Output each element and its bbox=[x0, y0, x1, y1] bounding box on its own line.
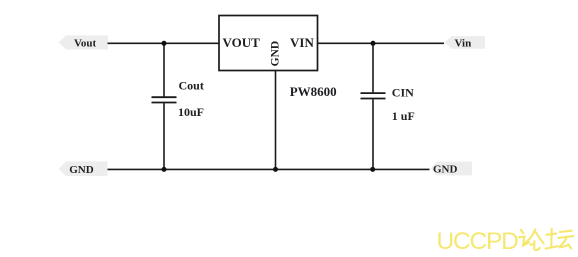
junction node: ground rail / Cout bbox=[162, 167, 167, 172]
svg-text:GND: GND bbox=[69, 164, 94, 176]
svg-text:UCCPD: UCCPD bbox=[437, 228, 519, 255]
wire: Cout bottom branch bbox=[163, 103, 165, 169]
watermark UCCPD logo text bbox=[437, 228, 519, 255]
wire: IC GND pin to ground rail bbox=[275, 71, 277, 170]
wire: Cout top branch bbox=[163, 43, 165, 96]
svg-text:VOUT: VOUT bbox=[223, 35, 261, 50]
capacitor Cout bbox=[152, 79, 205, 120]
wire: CIN top branch bbox=[372, 43, 374, 92]
svg-text:1 uF: 1 uF bbox=[392, 109, 415, 123]
svg-text:VIN: VIN bbox=[290, 35, 314, 50]
junction node: Vin/CIN bbox=[371, 41, 376, 46]
watermark chinese char LUN (论) bbox=[519, 229, 544, 250]
wire: IC VIN pin to Vin flag bbox=[318, 42, 445, 44]
port flag GND left bbox=[59, 161, 108, 176]
svg-text:GND: GND bbox=[433, 164, 458, 176]
svg-text:Vout: Vout bbox=[74, 38, 97, 50]
junction node: Vout/Cout bbox=[162, 41, 167, 46]
svg-text:Cout: Cout bbox=[179, 79, 204, 93]
svg-text:PW8600: PW8600 bbox=[290, 84, 337, 99]
svg-text:Vin: Vin bbox=[455, 37, 472, 49]
capacitor CIN bbox=[361, 86, 415, 123]
junction node: ground rail / CIN bbox=[370, 167, 375, 172]
port flag Vout bbox=[59, 35, 109, 49]
svg-text:CIN: CIN bbox=[392, 86, 414, 100]
wire: bottom ground rail bbox=[108, 168, 430, 170]
wire: Vout flag to IC VOUT pin bbox=[108, 42, 220, 44]
junction node: ground rail / IC GND bbox=[273, 167, 278, 172]
svg-text:10uF: 10uF bbox=[178, 105, 204, 119]
port flag GND right bbox=[431, 162, 473, 176]
svg-text:GND: GND bbox=[269, 41, 281, 67]
watermark chinese char TAN (坛) bbox=[546, 229, 574, 249]
port flag Vin bbox=[445, 36, 486, 49]
wire: CIN bottom branch bbox=[372, 99, 374, 169]
IC U1 PW8600 body bbox=[219, 16, 318, 71]
